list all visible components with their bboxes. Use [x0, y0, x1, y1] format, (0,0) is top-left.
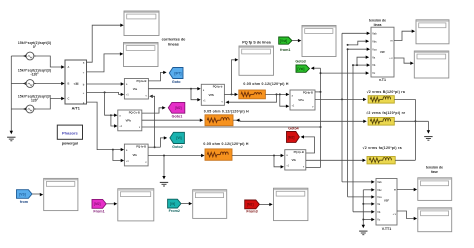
svg-text:powergui: powergui [62, 141, 78, 145]
svg-text:[Vst]: [Vst] [297, 67, 304, 71]
svg-text:C: C [68, 97, 70, 101]
svg-text:[VS]: [VS] [19, 192, 25, 196]
wire PQ-fp-B out to Y1 [315, 98, 367, 101]
svg-text:<M: <M [74, 82, 79, 86]
wire Y2 out to ground [394, 121, 428, 131]
svg-text:VPa: VPa [298, 98, 304, 102]
goto tag green Goto3 [296, 65, 310, 72]
label tension de linea [369, 19, 386, 28]
scope Scope2 [124, 43, 159, 67]
AC voltage source Va2 [24, 80, 36, 88]
svg-text:VIb: VIb [133, 153, 138, 157]
label sqrt2 vrms 3 [363, 146, 402, 150]
wire O1 to PQ-fp-B and return [226, 93, 290, 108]
svg-text:línea: línea [374, 23, 382, 27]
wire T1 a to Scope1 [87, 24, 124, 63]
svg-text:corrientes de: corrientes de [162, 38, 186, 42]
label 0.05 ohm line 1 [243, 82, 288, 86]
svg-text:0.05 ohm 0.12/(120²pi) H: 0.05 ohm 0.12/(120²pi) H [203, 142, 248, 146]
svg-text:Goto2: Goto2 [172, 145, 183, 149]
block V2F (tension de linea) [371, 27, 394, 77]
wire from1 to Scope4 [292, 39, 301, 42]
svg-text:PQ-fp-B: PQ-fp-B [294, 150, 304, 154]
svg-text:Vbc: Vbc [372, 40, 377, 43]
svg-text:PQ-Ia-B: PQ-Ia-B [137, 79, 147, 83]
AC voltage source Va3 [24, 105, 36, 113]
svg-text:A/T1: A/T1 [72, 106, 80, 110]
AC voltage source Va1 [24, 52, 36, 60]
goto tag [M2] (magenta) [168, 102, 185, 113]
svg-text:PQ fp S de línea: PQ fp S de línea [242, 40, 271, 44]
scope Scope12 [418, 208, 452, 232]
label From3 [246, 210, 257, 214]
wire V2F out v to Scope6 [394, 58, 414, 65]
wire P3 to O3 to VIb [148, 154, 284, 169]
wire source neutral bus to ground [11, 54, 26, 131]
svg-text:[M2]: [M2] [288, 135, 295, 139]
series RLC branch orange O3 [205, 149, 232, 160]
scope Scope5 [416, 20, 449, 44]
label Goto4 [288, 126, 298, 130]
wire PQ fp-b out to Scope3 and O1 [224, 58, 238, 96]
svg-text:Goto3: Goto3 [295, 60, 305, 64]
svg-text:VIb: VIb [292, 158, 297, 162]
block PQ-Cv-B (VPb) [118, 110, 142, 131]
label 0.05 ohm line 2 [204, 109, 249, 113]
svg-text:V2F: V2F [380, 50, 386, 54]
wire TT1 out m to Scope11 [397, 188, 417, 191]
wire From2 to Scope9 [181, 202, 192, 205]
svg-text:Vab: Vab [377, 181, 382, 184]
svg-text:From1: From1 [93, 210, 104, 214]
wire PQ-Cv-B out3 long [142, 126, 322, 128]
label source 1 [18, 41, 51, 49]
wire From3 to Scope10 [259, 203, 272, 206]
wire source2 to T1 port B [34, 82, 65, 85]
wire V2F Va feed [356, 56, 369, 67]
wire V2F Vc port long stub [320, 71, 370, 74]
svg-text:[Vst]: [Vst] [280, 39, 287, 43]
svg-text:m: m [390, 40, 392, 43]
from tag [M2] (red From3) [245, 200, 260, 209]
wire TT1 out v to Scope12 [397, 211, 417, 220]
svg-text:VIa: VIa [133, 87, 138, 91]
svg-text:B: B [68, 82, 70, 86]
from tag [Vst] (green) [279, 37, 292, 44]
svg-text:0.05 ohm 0.12/(120²pi) H: 0.05 ohm 0.12/(120²pi) H [204, 109, 249, 113]
wire T1 B bus [87, 91, 125, 127]
wire bus Vca vertical B2 [347, 48, 375, 199]
svg-text:V2F: V2F [384, 199, 390, 203]
wire Y1 out [394, 99, 416, 160]
scope Scope4 [302, 26, 336, 57]
svg-text:PQ-Iv-B: PQ-Iv-B [136, 145, 146, 149]
svg-text:PQ fp-b: PQ fp-b [213, 85, 223, 89]
svg-text:[M2]: [M2] [247, 203, 254, 207]
svg-text:120°: 120° [31, 99, 39, 103]
goto tag [Vt] (teal) [170, 132, 185, 143]
wire PQ-Ia-B out2 to PQ fp-b [148, 87, 200, 101]
label PQ fp S de linea [242, 40, 271, 44]
svg-text:from1: from1 [280, 48, 290, 52]
wire VIb to Goto4 [301, 135, 315, 153]
label 0.05 ohm line 3 [203, 142, 248, 146]
label A/T1 [72, 106, 80, 110]
svg-text:PQ-Cv-B: PQ-Cv-B [129, 110, 140, 114]
wire bus Vb vertical B3 [352, 63, 375, 213]
svg-text:From3: From3 [246, 210, 257, 214]
svg-text:Vca: Vca [377, 196, 382, 199]
wire PQ-Ia-B out1 to Goto tag [148, 71, 166, 81]
series RLC branch yellow Y1 [368, 96, 394, 103]
wire T1 C bus [87, 102, 125, 162]
svg-text:v.T1: v.T1 [379, 78, 386, 82]
wire V2F Vbc feed [347, 40, 370, 46]
wire PQ-Cv-B out1 to Goto1 tag [142, 106, 166, 113]
label corrientes de lineas [162, 38, 186, 47]
svg-text:[M2]: [M2] [94, 202, 101, 206]
scope Scope8 [118, 189, 154, 221]
label V.TT1 [382, 227, 391, 231]
svg-text:from: from [20, 200, 29, 204]
wire source3 to T1 port C [34, 97, 65, 109]
wire O2 to Y2 long [233, 119, 367, 124]
svg-text:VPb: VPb [209, 93, 215, 97]
svg-text:Vab: Vab [372, 32, 377, 35]
label source 3 [18, 95, 51, 103]
from tag [Vt] (teal From2) [168, 199, 181, 208]
svg-text:Goto1: Goto1 [172, 115, 183, 119]
wire source1 to T1 port A [34, 56, 65, 69]
svg-text:Vb: Vb [377, 211, 381, 214]
block PQ-fp-B (VPa) [290, 90, 315, 110]
label Goto2 [172, 145, 183, 149]
three-phase transformer block A/T1 [65, 60, 87, 105]
scope Scope9 [193, 190, 227, 219]
svg-text:Goto: Goto [172, 80, 181, 84]
svg-text:[IPT]: [IPT] [174, 71, 181, 75]
svg-text:A: A [68, 65, 70, 69]
block V2F (tension de fase) [376, 179, 397, 226]
ground G2 [160, 176, 168, 186]
ground G3 [424, 130, 432, 140]
svg-text:líneas: líneas [168, 43, 179, 47]
svg-text:[Vt]: [Vt] [176, 136, 181, 140]
series RLC branch yellow Y2 [368, 118, 394, 126]
ground G1 (source neutral) [7, 131, 15, 141]
wire From1 to Scope8 [106, 202, 117, 205]
svg-text:VPb: VPb [125, 118, 131, 122]
label Goto3 [295, 60, 305, 64]
label sqrt2 vrms 1 [367, 90, 405, 94]
label Goto1 [172, 115, 183, 119]
scope Scope6 [414, 51, 449, 78]
svg-text:tensión de: tensión de [369, 19, 386, 23]
label v.T1 [379, 78, 386, 82]
label from1 [280, 48, 290, 52]
label powergui [62, 141, 78, 145]
wire V2F out m to Scope5 [394, 30, 415, 41]
scope Scope3 [239, 46, 274, 75]
label From2 [169, 209, 180, 213]
ground G4 [359, 225, 367, 235]
from tag [M2] (magenta From1) [92, 199, 106, 208]
block PQ-Iv-B (VIb) [124, 144, 148, 166]
label From1 [93, 210, 104, 214]
label from [20, 200, 29, 204]
wire to ground G2 [163, 155, 165, 177]
svg-text:√2 vrms B(120²pi) ra: √2 vrms B(120²pi) ra [367, 90, 405, 94]
svg-text:[Vt]: [Vt] [170, 202, 175, 206]
svg-text:√2 vrms fa(120²pi) ra: √2 vrms fa(120²pi) ra [363, 146, 402, 150]
goto tag red Goto4 [287, 132, 300, 143]
scope Scope7 [44, 178, 78, 210]
powergui block Phasors [57, 125, 82, 139]
svg-text:√2 vrms fa(120²pi) re: √2 vrms fa(120²pi) re [366, 111, 405, 115]
svg-text:From2: From2 [169, 209, 180, 213]
block PQ-Ia-B (VIa) [124, 79, 148, 100]
label tension de fase [426, 165, 443, 174]
svg-text:Vca: Vca [372, 48, 377, 51]
label source 2 [18, 69, 51, 77]
svg-text:m: m [394, 188, 396, 191]
scope Scope11 [418, 178, 452, 201]
svg-text:fase: fase [431, 170, 438, 174]
label Goto [172, 80, 181, 84]
goto tag [IPT] (cyan) [169, 68, 183, 79]
block PQ-fp-B2 (VIb) [285, 150, 306, 170]
scope Scope10 [274, 188, 308, 220]
svg-text:-120°: -120° [30, 73, 39, 77]
scope Scope1 [124, 11, 159, 36]
svg-text:Vbc: Vbc [377, 189, 382, 192]
svg-text:PQ-fp-B: PQ-fp-B [303, 90, 313, 94]
svg-text:Vb: Vb [372, 64, 376, 67]
series RLC branch yellow Y3 [367, 157, 395, 164]
wire bus Vab vertical B1 [342, 32, 375, 184]
wire vertical net x320 [306, 67, 322, 168]
svg-text:Goto4: Goto4 [288, 126, 298, 130]
svg-text:tensión de: tensión de [426, 165, 443, 169]
svg-text:0.05 ohm 0.12/(120²pi) H: 0.05 ohm 0.12/(120²pi) H [243, 82, 288, 86]
wire from to Scope7 [32, 193, 43, 196]
wire T1 b to Scope2 [87, 52, 124, 72]
wire PQ-Cv-B out2 to O2 [142, 119, 203, 122]
wire Y3 out [395, 159, 415, 161]
wire T1 A to PQ-Ia-B [87, 82, 125, 85]
wire VIb out2 to Y3 [306, 159, 366, 162]
svg-text:[M2]: [M2] [175, 106, 182, 110]
from tag [VS] (blue) [17, 190, 33, 199]
svg-text:Phasors: Phasors [62, 130, 79, 135]
series RLC branch orange O2 [205, 115, 233, 126]
wire TT1 neutral to ground [362, 188, 374, 225]
svg-text:V.TT1: V.TT1 [382, 227, 391, 231]
block PQ fp-b (VPb) [201, 84, 224, 105]
label sqrt2 vrms 2 [366, 111, 405, 115]
series RLC branch orange O1 [239, 90, 266, 99]
wire teal goto net [148, 95, 167, 149]
